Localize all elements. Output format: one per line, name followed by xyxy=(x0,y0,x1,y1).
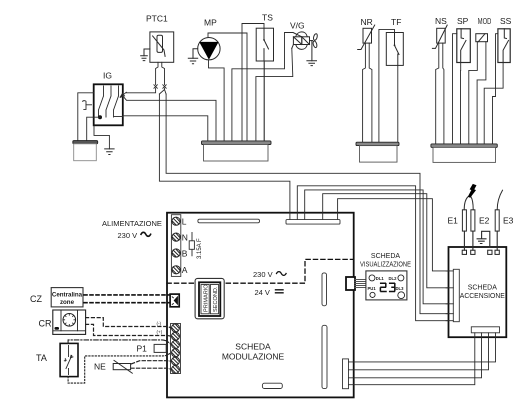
wire TF leads xyxy=(379,29,398,142)
ground (PTC1) xyxy=(141,49,150,61)
wire SP leads xyxy=(453,34,461,145)
svg-text:V/G: V/G xyxy=(290,21,305,31)
svg-text:SCHEDA: SCHEDA xyxy=(371,253,401,260)
wire accensione-modulazione 4 xyxy=(349,333,475,385)
svg-text:DL1: DL1 xyxy=(376,276,385,281)
terminal A xyxy=(172,266,180,274)
wire accensione-modulazione 3 xyxy=(349,333,482,378)
wire IG right upper to connector xyxy=(124,98,216,142)
svg-text:E1: E1 xyxy=(448,216,459,226)
svg-text:B: B xyxy=(182,248,188,258)
ribbon cable xyxy=(355,280,366,288)
wire IG to ground xyxy=(94,126,109,149)
wire IG left to plug prong xyxy=(78,93,94,141)
svg-text:PRIMARIO: PRIMARIO xyxy=(204,284,210,312)
svg-text:PTC1: PTC1 xyxy=(146,14,168,24)
svg-text:SCHEDA: SCHEDA xyxy=(235,342,271,352)
connector CN3 (NS/SP/MOD/SS plug) xyxy=(431,144,497,163)
connector CN1 (MP/TS plug) xyxy=(202,141,272,161)
svg-text:VISUALIZZAZIONE: VISUALIZZAZIONE xyxy=(360,262,411,269)
svg-text:230 V: 230 V xyxy=(118,231,138,240)
wire NE lower (dashed) xyxy=(131,367,171,370)
slot (board top) xyxy=(198,219,260,223)
wire C: board connector to ignition board xyxy=(297,186,448,321)
switch IG xyxy=(94,84,123,125)
wire D: board connector to ignition board xyxy=(305,190,449,304)
terminal X left (PTC1) xyxy=(154,85,157,88)
svg-text:CZ: CZ xyxy=(30,294,42,304)
node junction (IG) xyxy=(98,115,102,119)
wire NR probe sleeve xyxy=(363,43,372,142)
wire SS leads xyxy=(484,34,503,145)
ground (MP) xyxy=(188,49,197,64)
connector CN4 (board top) xyxy=(286,220,340,225)
svg-text:Centralina: Centralina xyxy=(52,292,83,299)
electrode E3 xyxy=(495,190,502,250)
svg-text:TS: TS xyxy=(262,13,273,23)
wire TA top (dash-dot) xyxy=(68,340,170,344)
svg-text:NS: NS xyxy=(435,16,447,26)
svg-text:zone: zone xyxy=(60,299,75,306)
terminal (E1b) xyxy=(471,250,475,254)
svg-text:E3: E3 xyxy=(503,216,514,226)
svg-text:TA: TA xyxy=(36,353,47,363)
wire V/G feed from connector xyxy=(232,33,293,142)
svg-text:24 V: 24 V xyxy=(255,288,270,297)
zone control CZ box xyxy=(51,288,83,307)
wire E: board connector to ignition board xyxy=(323,194,449,288)
svg-text:ALIMENTAZIONE: ALIMENTAZIONE xyxy=(102,219,162,228)
thermostat TS xyxy=(256,28,273,61)
slot (board right lower) xyxy=(322,325,327,388)
svg-text:MODULAZIONE: MODULAZIONE xyxy=(222,352,285,362)
sensor PTC1 xyxy=(150,32,174,62)
wire accensione-modulazione 1 xyxy=(349,333,496,362)
transformer T1 xyxy=(195,278,224,318)
wire stubs into accensione bar xyxy=(446,271,453,321)
board SCHEDA MODULAZIONE outline xyxy=(167,213,354,398)
connector (board left, CZ dock) xyxy=(170,294,179,307)
svg-text:NE: NE xyxy=(94,362,106,372)
ground (E2) xyxy=(477,231,490,247)
thermostat TA xyxy=(60,343,78,376)
terminal (E1a) xyxy=(462,250,466,254)
svg-text:DL2: DL2 xyxy=(389,276,398,281)
svg-text:A: A xyxy=(182,265,188,275)
wire IG dot to plug prong xyxy=(87,117,100,141)
wire 230V/24V divider (dashed) xyxy=(167,259,354,283)
plug (mains) xyxy=(73,141,98,161)
electrode E1 xyxy=(462,197,475,251)
svg-text:TF: TF xyxy=(391,17,401,27)
wire MOD leads xyxy=(469,42,486,145)
sensor NS xyxy=(432,25,447,48)
screw terminals x6 xyxy=(172,324,180,374)
svg-text:SP: SP xyxy=(457,16,469,26)
svg-text:3.15A F: 3.15A F xyxy=(197,238,203,259)
svg-text:ACCENSIONE: ACCENSIONE xyxy=(460,293,505,300)
svg-text:SECOND.: SECOND. xyxy=(213,286,219,312)
actuator symbol (IG left) xyxy=(83,101,92,110)
wire MP bottom to connector xyxy=(209,60,225,141)
clock CR tick marks xyxy=(63,314,76,327)
terminal (E3) xyxy=(495,250,499,254)
connector (accensione left bar) xyxy=(453,269,459,321)
svg-text:L: L xyxy=(182,217,187,227)
thermostat TF xyxy=(386,33,403,66)
svg-text:(-): (-) xyxy=(157,321,162,326)
wire NE upper (dashed) xyxy=(132,361,172,364)
sensor NR xyxy=(358,25,375,49)
ground (V/G) xyxy=(307,41,317,66)
wire V/G return to connector xyxy=(256,48,293,141)
svg-text:N: N xyxy=(182,232,188,242)
connector (accensione bottom bar) xyxy=(471,327,499,333)
slot (board bottom) xyxy=(262,383,282,388)
svg-text:MOD: MOD xyxy=(478,16,492,26)
svg-text:NR: NR xyxy=(361,17,373,27)
svg-text:SS: SS xyxy=(500,16,512,26)
svg-text:SCHEDA: SCHEDA xyxy=(468,285,498,292)
svg-text:DL3: DL3 xyxy=(396,286,405,291)
symbol AC sine small xyxy=(277,272,287,276)
wire PTC1 legs and probe sleeve xyxy=(156,62,165,84)
wire MP top to connector xyxy=(208,33,247,141)
wire CR lower (dashed) xyxy=(86,324,171,336)
board SCHEDA ACCENSIONE outline xyxy=(449,247,507,337)
svg-text:IG: IG xyxy=(103,71,112,81)
svg-text:E2: E2 xyxy=(479,216,490,226)
svg-text:CR: CR xyxy=(39,319,52,329)
wire TS top to connector xyxy=(242,24,264,142)
symbol DC equals xyxy=(276,290,284,293)
resistor NE xyxy=(113,360,132,373)
wire PTC1 right fork xyxy=(159,88,166,94)
ground (IG) xyxy=(105,149,114,155)
svg-text:PU1: PU1 xyxy=(368,286,377,291)
svg-text:P1: P1 xyxy=(137,344,148,354)
spark symbol (lightning) xyxy=(468,184,477,198)
wire F: board connector to ignition board xyxy=(338,199,449,271)
gas valve V/G xyxy=(292,32,318,49)
wire B: PTC1 fork-right to ignition board xyxy=(166,94,448,314)
terminal strip L N B A xyxy=(171,215,180,277)
display digits 23 xyxy=(380,283,394,291)
connector (modulazione right bar) xyxy=(343,359,349,389)
connector CN2 (NR/TF plug) xyxy=(356,142,399,162)
terminal strip (board lower-left screws) xyxy=(171,324,181,374)
wire CR upper (dashed) xyxy=(86,318,171,328)
terminal L xyxy=(172,217,180,225)
wire TS bottom to connector xyxy=(263,61,265,141)
svg-text:MP: MP xyxy=(204,18,217,28)
indicator blob (CR) xyxy=(55,327,60,330)
terminal X right (PTC1) xyxy=(163,85,166,88)
wire PTC1 left X to IG arrow xyxy=(126,88,155,93)
svg-text:(+): (+) xyxy=(157,329,163,334)
slot (board right upper) xyxy=(322,273,327,306)
terminal (E2) xyxy=(488,250,492,254)
LED DL1 xyxy=(369,275,375,281)
terminal B xyxy=(172,249,180,257)
display board U2 xyxy=(366,271,407,300)
symbol AC sine xyxy=(141,232,151,236)
connector (ribbon, board right) xyxy=(346,277,355,290)
arrow (IG manual) xyxy=(120,92,126,97)
wire NS probe sleeve xyxy=(436,43,444,144)
modulator MOD xyxy=(476,34,488,42)
svg-text:230 V: 230 V xyxy=(253,270,273,279)
wire A: PTC1 fork-left to board top connector xyxy=(159,94,290,220)
clock CR xyxy=(53,310,86,334)
terminal N xyxy=(172,233,180,241)
jumper P1 xyxy=(154,344,166,352)
wire IG right lower to connector xyxy=(123,116,208,142)
wire accensione-modulazione 2 xyxy=(349,333,489,370)
pump MP xyxy=(198,38,220,60)
switch SP xyxy=(457,29,471,63)
switch SS xyxy=(498,29,510,63)
fuse F1 xyxy=(189,232,194,255)
wire CZ to board (dashed pair) xyxy=(84,294,169,296)
wire TA bottom (dotted) xyxy=(68,353,170,383)
